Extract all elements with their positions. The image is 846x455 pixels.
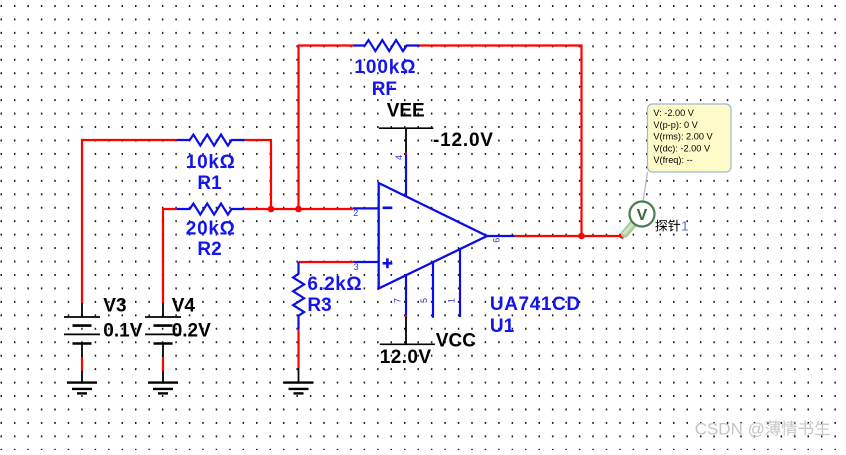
wire: R2 to op-amp inverting input: [245, 208, 353, 210]
svg-text:0.1V: 0.1V: [103, 321, 142, 342]
svg-text:V(p-p): 0 V: V(p-p): 0 V: [653, 120, 698, 130]
CSDN watermark: [695, 419, 830, 438]
svg-text:R2: R2: [197, 239, 221, 260]
node: probe attach point: [619, 233, 624, 238]
svg-text:RF: RF: [372, 79, 397, 100]
wire: RF right to output node: [420, 46, 582, 237]
svg-text:20kΩ: 20kΩ: [186, 218, 236, 239]
wire: R3 top to op-amp non-inverting input: [299, 261, 354, 263]
svg-text:V3: V3: [103, 296, 126, 317]
wire: op-amp output: [515, 235, 622, 237]
svg-text:-12.0V: -12.0V: [433, 130, 494, 151]
wire: pin 5 stub: [432, 262, 434, 318]
wire: pin 1 stub: [459, 249, 461, 317]
resistor R3: [293, 262, 304, 329]
wire: output stub pin 6: [487, 235, 515, 237]
svg-text:7: 7: [393, 298, 403, 303]
ground under V3: [67, 381, 97, 383]
ground under V4: [148, 381, 178, 383]
svg-text:6: 6: [492, 238, 502, 243]
svg-text:1: 1: [681, 219, 688, 234]
wire: V4 bottom to ground: [162, 357, 164, 371]
svg-text:6.2kΩ: 6.2kΩ: [307, 274, 362, 295]
wire: V4 to R2: [163, 209, 177, 303]
svg-text:1: 1: [447, 298, 457, 303]
svg-text:4: 4: [394, 155, 404, 160]
svg-text:VCC: VCC: [436, 330, 476, 351]
probe name 探针1: [655, 219, 688, 234]
svg-text:V(freq): --: V(freq): --: [653, 155, 692, 165]
wire: feedback left vertical from R2 node up to RF: [299, 46, 354, 210]
svg-text:12.0V: 12.0V: [380, 347, 432, 368]
ground under R3: [284, 381, 314, 383]
svg-text:5: 5: [419, 298, 429, 303]
resistor RF: [353, 40, 419, 51]
op-amp plus input symbol: [383, 258, 393, 268]
node: feedback junction: [295, 206, 302, 213]
svg-text:V: V: [637, 207, 648, 224]
svg-text:VEE: VEE: [387, 101, 425, 122]
VEE rail bar: [379, 127, 433, 129]
wire: non-inverting input stub pin 3: [354, 261, 379, 263]
measurement text: [653, 108, 713, 165]
svg-text:V(dc): -2.00 V: V(dc): -2.00 V: [653, 143, 711, 153]
wire: R3 bottom to ground: [297, 329, 299, 368]
wire: V3 bottom to ground: [81, 357, 83, 371]
svg-text:R1: R1: [197, 173, 222, 194]
wire: R1 right down to node: [245, 140, 271, 209]
VCC rail bar: [380, 343, 435, 345]
svg-text:UA741CD: UA741CD: [490, 294, 581, 315]
probe leader line: [643, 172, 648, 202]
svg-text:100kΩ: 100kΩ: [354, 57, 416, 78]
svg-text:R3: R3: [307, 295, 331, 316]
probe measurement box: [648, 104, 732, 172]
svg-text:3: 3: [354, 262, 359, 272]
op-amp U1 triangle: [379, 183, 487, 289]
node: R1/R2 junction: [268, 206, 275, 213]
svg-text:V(rms): 2.00 V: V(rms): 2.00 V: [653, 132, 713, 142]
probe needle: [625, 221, 636, 234]
svg-text:0.2V: 0.2V: [172, 321, 211, 342]
wire: pin 7 to VCC: [405, 275, 407, 344]
node: output junction: [578, 233, 585, 240]
wire: pin 4 to VEE: [405, 128, 407, 196]
svg-text:10kΩ: 10kΩ: [186, 152, 236, 173]
wire: inverting input stub pin 2: [353, 207, 379, 209]
svg-text:V4: V4: [172, 296, 196, 317]
resistor R1: [177, 135, 245, 146]
probe circle V: [630, 202, 655, 227]
wire: V3 to R1: [82, 140, 177, 303]
op-amp minus input symbol: [383, 207, 393, 210]
svg-text:U1: U1: [490, 316, 515, 337]
resistor R2: [177, 204, 245, 215]
svg-text:CSDN @: CSDN @: [695, 419, 765, 438]
battery V3: [81, 303, 83, 317]
battery V4: [162, 303, 164, 317]
svg-text:2: 2: [353, 208, 358, 218]
svg-text:V: -2.00 V: V: -2.00 V: [653, 108, 694, 118]
